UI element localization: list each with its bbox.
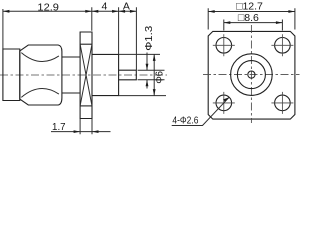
mounting hole bottom-right [271,92,293,114]
hex chamfer arc bottom [21,89,59,98]
body barrel [62,57,80,93]
centerline horizontal right view [203,74,300,76]
flange chamfer line top [80,43,92,45]
insulator body phi6 [92,54,119,95]
flange front view outline [208,31,295,119]
mounting hole bottom-left [213,92,235,114]
flange side view [80,32,92,119]
boss outer circle [231,54,273,96]
svg-text:□8.6: □8.6 [238,12,259,24]
hex chamfer arc top [21,53,59,62]
svg-text:Φ1.3: Φ1.3 [143,26,155,51]
mounting hole top-left [213,34,235,56]
pin hole circle [248,71,255,78]
hex nut outline [20,45,62,105]
svg-text:Φ6: Φ6 [153,71,165,84]
svg-text:12.9: 12.9 [37,1,59,13]
boss middle circle [237,61,265,89]
flange chamfer line bottom [80,105,92,107]
svg-text:4-Φ2.6: 4-Φ2.6 [172,115,198,127]
svg-text:4: 4 [101,1,107,13]
dimension 4 [92,1,119,31]
center pin [119,70,137,80]
svg-text:1.7: 1.7 [52,121,66,133]
leader 4-phi2.6 [172,97,230,127]
dimension 12.7 [208,0,295,29]
flange cross diagonals [80,44,92,106]
centerline vertical right view [250,25,252,123]
dimension 8.6 [224,12,283,31]
connector front cap [3,49,20,101]
dimension 1.7 [51,119,111,135]
centerline left view [0,74,167,76]
dimension 12.9 [3,1,92,49]
dimension phi1.3 [138,26,165,89]
svg-text:□12.7: □12.7 [236,0,263,12]
dimension phi6 [119,54,166,95]
mounting hole top-right [271,34,293,56]
svg-text:A: A [123,1,130,13]
dimension A [119,1,137,70]
